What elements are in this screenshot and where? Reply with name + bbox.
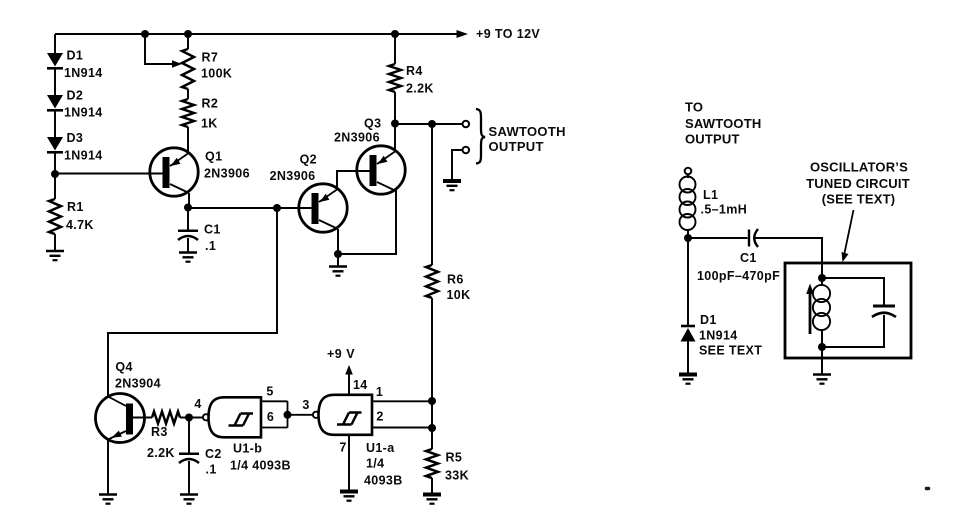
svg-text:R2: R2 xyxy=(202,96,219,110)
wire Q2 collector down xyxy=(337,229,339,254)
wire pin 7 to ground xyxy=(339,435,349,491)
potentiometer R7 100K xyxy=(145,34,232,89)
transistor Q4 2N3904 xyxy=(96,360,161,443)
node pin4 junction xyxy=(185,414,193,422)
svg-text:TUNED CIRCUIT: TUNED CIRCUIT xyxy=(806,176,910,191)
wire node A to R1 xyxy=(54,174,56,199)
wire R3 to node xyxy=(180,417,187,419)
wire tank to ground xyxy=(821,347,823,374)
pin 14 +9V supply xyxy=(327,347,368,395)
svg-text:2N3904: 2N3904 xyxy=(115,377,161,391)
ground pin 7 xyxy=(340,490,358,494)
svg-text:SEE TEXT: SEE TEXT xyxy=(699,344,762,358)
ground C2 xyxy=(180,493,198,496)
svg-text:R7: R7 xyxy=(202,51,219,65)
wire junction to D1 xyxy=(687,238,689,325)
transistor Q3 2N3906 xyxy=(334,117,405,195)
ground R5 xyxy=(423,493,441,497)
resistor R2 1K xyxy=(182,96,218,130)
svg-text:Q3: Q3 xyxy=(364,117,381,131)
svg-text:.5–1mH: .5–1mH xyxy=(701,203,748,217)
node pin1 junction xyxy=(428,397,436,405)
svg-text:C2: C2 xyxy=(205,447,222,461)
resistor R5 33K xyxy=(426,449,469,483)
svg-text:4093B: 4093B xyxy=(364,474,403,488)
svg-text:1N914: 1N914 xyxy=(64,106,103,120)
svg-text:2N3906: 2N3906 xyxy=(270,169,316,183)
wire C1 to tuned circuit xyxy=(755,238,822,276)
wire Q1 collector to Q2 base xyxy=(188,207,314,209)
diode D1 1N914 xyxy=(47,49,103,81)
wire R6 to pin1 node xyxy=(431,298,433,401)
node rail junction 1 xyxy=(141,30,149,38)
wire Q4 base xyxy=(133,417,152,419)
svg-text:100pF–470pF: 100pF–470pF xyxy=(697,269,780,283)
svg-text:2: 2 xyxy=(376,410,383,424)
svg-text:Q2: Q2 xyxy=(300,153,317,167)
wire output junction to terminal xyxy=(395,123,462,125)
node Q1 collector xyxy=(184,204,192,212)
resistor R6 10K xyxy=(426,265,470,302)
node rail junction 2 xyxy=(184,30,192,38)
inductor tank coil xyxy=(813,278,830,347)
svg-text:2.2K: 2.2K xyxy=(147,446,175,460)
svg-text:7: 7 xyxy=(339,441,346,455)
wire D3-node xyxy=(54,152,56,174)
node pin5-6 tie xyxy=(284,411,292,419)
ground Q4 xyxy=(99,493,117,496)
wire node to C2 xyxy=(188,418,190,453)
wire D1-D2 xyxy=(54,68,56,95)
gate U1-b 1/4 4093B xyxy=(203,385,291,473)
wire J2 to ground xyxy=(452,150,462,180)
wire node A to Q1 base xyxy=(55,173,166,175)
svg-text:14: 14 xyxy=(353,378,368,392)
svg-text:1N914: 1N914 xyxy=(64,148,103,162)
svg-text:OUTPUT: OUTPUT xyxy=(685,132,740,147)
node pin2 junction xyxy=(428,424,436,432)
svg-text:3: 3 xyxy=(302,398,309,412)
svg-text:6: 6 xyxy=(267,410,274,424)
svg-text:4: 4 xyxy=(194,397,201,411)
node rail junction 3 xyxy=(391,30,399,38)
svg-text:1N914: 1N914 xyxy=(64,66,103,80)
wire tank capacitor to bottom xyxy=(822,315,884,347)
wire pin 1 xyxy=(372,385,432,401)
wire node to R5 xyxy=(431,428,433,449)
svg-text:100K: 100K xyxy=(201,67,232,81)
resistor R3 2.2K xyxy=(147,412,180,461)
wire Q3 emitter up xyxy=(394,123,396,152)
svg-text:+9 V: +9 V xyxy=(327,347,355,361)
svg-text:D1: D1 xyxy=(67,49,84,63)
wire pin3 to U1-a xyxy=(288,414,313,416)
wire pin1-pin2 node xyxy=(431,401,433,428)
label TO SAWTOOTH OUTPUT xyxy=(685,100,761,147)
wire Q2 emitter to Q3 base xyxy=(337,171,372,190)
capacitor C2 .1 xyxy=(179,447,222,494)
gate U1-a 1/4 4093B xyxy=(313,395,403,488)
svg-text:R4: R4 xyxy=(406,64,423,78)
wire Q4 emitter to ground xyxy=(107,440,109,495)
node L1-C1-D1 junction xyxy=(684,234,692,242)
wire pin 2 xyxy=(372,410,432,428)
svg-text:U1-b: U1-b xyxy=(233,442,262,456)
svg-text:D1: D1 xyxy=(700,313,717,327)
svg-text:10K: 10K xyxy=(447,288,471,302)
resistor R4 2.2K xyxy=(389,34,434,123)
label OSCILLATORS TUNED CIRCUIT xyxy=(806,160,910,207)
wire top +V rail xyxy=(55,33,461,35)
wire R1 to ground xyxy=(54,234,56,251)
wire junction to C1 xyxy=(688,237,748,239)
svg-text:SAWTOOTH: SAWTOOTH xyxy=(489,124,566,139)
node A (divider tap) xyxy=(51,170,59,178)
svg-text:1/4 4093B: 1/4 4093B xyxy=(230,459,291,473)
svg-text:OSCILLATOR’S: OSCILLATOR’S xyxy=(810,160,908,175)
svg-text:R3: R3 xyxy=(151,425,168,439)
svg-text:U1-a: U1-a xyxy=(366,441,395,455)
wire D2-D3 xyxy=(54,110,56,137)
svg-text:2N3906: 2N3906 xyxy=(334,131,380,145)
capacitor C1 .1 xyxy=(178,207,221,253)
diode D2 1N914 xyxy=(47,88,103,119)
svg-text:1N914: 1N914 xyxy=(699,329,738,343)
ground tank xyxy=(813,373,831,376)
svg-text:4.7K: 4.7K xyxy=(66,218,94,232)
arrow pointer to box xyxy=(842,210,854,262)
node tank top xyxy=(818,274,826,282)
capacitor tank xyxy=(872,306,896,317)
ground D1 xyxy=(679,373,697,377)
transistor Q2 2N3906 xyxy=(270,153,348,233)
svg-text:2.2K: 2.2K xyxy=(406,81,434,95)
node R6 branch xyxy=(428,120,436,128)
wire Q1 collector down xyxy=(188,193,190,207)
terminal input from sawtooth xyxy=(685,168,692,175)
diode D3 1N914 xyxy=(47,131,103,162)
wire R7-R2 xyxy=(187,89,189,99)
ground output xyxy=(443,179,461,183)
svg-text:C1: C1 xyxy=(204,223,221,237)
wire feedback to Q4 collector xyxy=(108,208,277,397)
power arrow +9 TO 12V xyxy=(457,27,541,41)
svg-text:1: 1 xyxy=(376,385,383,399)
ground Q2 collector xyxy=(329,265,347,268)
terminal J2 output bottom xyxy=(463,147,470,154)
svg-text:D2: D2 xyxy=(67,88,84,102)
node Q2-Q3 collector junction xyxy=(334,250,342,258)
diode D1 1N914 (pump) xyxy=(681,313,763,374)
svg-text:.1: .1 xyxy=(205,239,216,253)
svg-text:TO: TO xyxy=(685,100,703,115)
inductor L1 .5-1mH xyxy=(680,174,748,238)
wire R6 branch down xyxy=(431,124,433,265)
svg-text:1/4: 1/4 xyxy=(366,457,384,471)
svg-text:2N3906: 2N3906 xyxy=(204,167,250,181)
svg-text:R5: R5 xyxy=(446,451,463,465)
svg-text:33K: 33K xyxy=(445,469,469,483)
svg-text:C1: C1 xyxy=(740,251,757,265)
svg-text:(SEE TEXT): (SEE TEXT) xyxy=(822,192,896,207)
svg-text:SAWTOOTH: SAWTOOTH xyxy=(685,116,761,131)
svg-text:L1: L1 xyxy=(703,188,718,202)
svg-text:OUTPUT: OUTPUT xyxy=(489,139,544,154)
resistor R1 4.7K xyxy=(49,199,94,234)
node feedback junction xyxy=(273,204,281,212)
svg-text:R1: R1 xyxy=(67,200,84,214)
capacitor C1 100pF-470pF xyxy=(697,229,780,283)
transistor Q1 2N3906 xyxy=(150,148,250,196)
svg-text:Q4: Q4 xyxy=(115,360,132,374)
node sawtooth output junction xyxy=(391,120,399,128)
wire tank top to capacitor xyxy=(822,278,884,305)
svg-text:D3: D3 xyxy=(67,131,84,145)
period mark xyxy=(925,487,930,490)
box oscillator tuned circuit xyxy=(785,263,911,358)
wire R2 to Q1 emitter xyxy=(187,127,189,154)
svg-text:1K: 1K xyxy=(201,116,218,130)
svg-text:5: 5 xyxy=(266,385,273,399)
arrow tuning indicator xyxy=(806,284,814,335)
ground R1 xyxy=(46,250,64,253)
brace and label SAWTOOTH OUTPUT xyxy=(476,109,566,164)
wire R5 to ground xyxy=(431,478,433,494)
terminal J1 output top xyxy=(463,121,470,128)
svg-text:.1: .1 xyxy=(206,463,217,477)
svg-text:+9 TO 12V: +9 TO 12V xyxy=(476,27,540,41)
wire left branch drop xyxy=(54,34,56,53)
wire node to U1-b output bubble xyxy=(189,417,202,419)
svg-text:Q1: Q1 xyxy=(205,150,222,164)
svg-text:R6: R6 xyxy=(447,273,464,287)
node tank bottom xyxy=(818,343,826,351)
wire junction to Q3 collector xyxy=(338,190,396,254)
wire junction to ground xyxy=(337,254,339,266)
ground C1 xyxy=(179,251,197,254)
